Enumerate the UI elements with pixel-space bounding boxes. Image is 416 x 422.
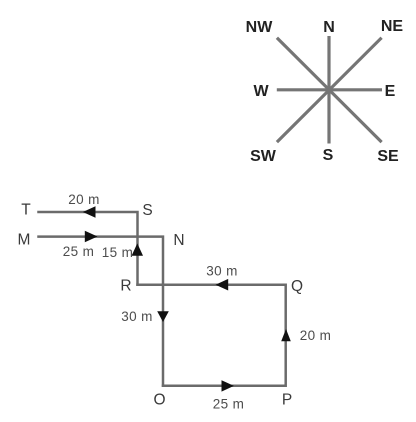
svg-text:25 m: 25 m [63, 244, 95, 259]
arrow north on S-R 15m segment [132, 243, 143, 255]
svg-text:30 m: 30 m [121, 309, 153, 324]
svg-text:W: W [253, 83, 269, 100]
compass N-S line [327, 36, 330, 144]
wire M to N to O [39, 237, 164, 386]
wire R to Q to P to O [138, 285, 286, 386]
svg-text:R: R [120, 278, 131, 295]
svg-text:15 m: 15 m [102, 245, 134, 260]
path diagram wires [39, 212, 286, 386]
svg-text:Q: Q [291, 278, 303, 295]
compass NE-SW line [277, 38, 382, 142]
arrow west on R-Q segment [216, 279, 229, 291]
svg-text:S: S [142, 202, 152, 219]
svg-text:NE: NE [381, 18, 404, 35]
svg-text:20 m: 20 m [300, 328, 332, 343]
svg-text:S: S [323, 147, 334, 164]
arrow west on T-S segment [83, 206, 96, 218]
arrow east on O-P segment [222, 380, 234, 391]
svg-text:30 m: 30 m [206, 264, 238, 279]
svg-text:25 m: 25 m [213, 397, 245, 412]
svg-text:20 m: 20 m [68, 192, 100, 207]
svg-text:M: M [18, 232, 31, 249]
svg-text:N: N [323, 19, 335, 36]
svg-text:O: O [153, 392, 165, 409]
wire T to S to R [39, 212, 138, 285]
svg-text:N: N [173, 232, 184, 249]
svg-text:P: P [282, 392, 292, 409]
compass rose [277, 36, 382, 144]
compass NW-SE line [277, 38, 382, 142]
svg-text:E: E [385, 83, 396, 100]
svg-text:NW: NW [246, 19, 274, 36]
svg-text:SW: SW [250, 148, 277, 165]
svg-text:T: T [21, 202, 31, 219]
compass W-E line [277, 88, 382, 91]
svg-text:SE: SE [377, 148, 399, 165]
arrow south on N-O 30m segment [157, 311, 169, 322]
arrow north on Q-P 20m segment [281, 329, 291, 341]
arrow east on M-N segment [85, 231, 98, 243]
